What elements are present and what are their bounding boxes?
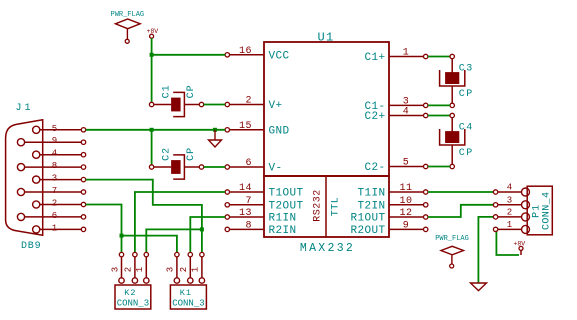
svg-text:TTL: TTL <box>331 197 342 217</box>
C3 plate (filled) <box>445 72 459 84</box>
K2 pin 3 end <box>119 252 123 256</box>
C2 right end <box>199 165 203 169</box>
wire C2 to U1 <box>204 166 225 168</box>
U1 pin 13 end <box>225 215 229 219</box>
P1 pin 1 end <box>493 227 497 231</box>
K2 pad pin 1 <box>144 278 149 283</box>
J1 pin 8 end <box>81 165 85 169</box>
svg-text:C2-: C2- <box>364 162 385 174</box>
P1 pad pin 4 <box>522 188 530 196</box>
wire U1 to C3 top <box>428 56 450 58</box>
J1 pad pin 1 <box>33 226 40 233</box>
wire junction down to C1 <box>151 55 153 103</box>
wire C4 bottom to U1 <box>428 166 450 168</box>
wire DB9 pin2 to junction B (net RX) <box>86 205 122 236</box>
power symbol +8V (top) <box>150 34 154 38</box>
J1 pad pin 2 <box>33 201 40 208</box>
svg-text:9: 9 <box>52 136 57 146</box>
U1 pin 10 end <box>424 203 428 207</box>
P1 pin 3 end <box>493 203 497 207</box>
U1 pin 10 T2IN stub <box>389 204 424 206</box>
svg-text:C4: C4 <box>459 123 474 134</box>
U1 pin 7 end <box>225 203 229 207</box>
svg-text:V-: V- <box>269 163 283 175</box>
svg-text:K2: K2 <box>124 288 136 298</box>
svg-text:4: 4 <box>52 149 57 159</box>
J1 pin 2 end <box>81 202 85 206</box>
svg-text:2: 2 <box>179 267 189 272</box>
svg-text:+8V: +8V <box>514 241 526 248</box>
svg-text:8: 8 <box>52 161 57 171</box>
svg-text:T2IN: T2IN <box>357 200 385 212</box>
J1 pin 6 end <box>81 215 85 219</box>
svg-text:8: 8 <box>245 220 252 231</box>
svg-text:J1: J1 <box>16 103 34 114</box>
C4 bottom end <box>450 164 454 168</box>
svg-text:R2OUT: R2OUT <box>350 225 385 237</box>
svg-text:4: 4 <box>403 107 410 118</box>
junction GND symbol branch <box>213 128 217 132</box>
U1 pin 2 V+ stub <box>230 104 265 106</box>
U1 pin 5 end <box>424 164 428 168</box>
J1 pin 9 lead <box>25 141 82 143</box>
svg-text:11: 11 <box>399 183 412 194</box>
U1 pin 9 R2OUT stub <box>389 228 424 230</box>
svg-text:+8V: +8V <box>147 28 159 35</box>
svg-text:2: 2 <box>52 199 57 209</box>
svg-text:C2: C2 <box>161 147 172 161</box>
svg-text:2: 2 <box>245 96 252 107</box>
K2 pin 3 lead <box>121 257 123 278</box>
junction +8V/VCC node <box>150 53 154 57</box>
P1 pad pin 2 <box>522 213 530 221</box>
svg-text:16: 16 <box>239 46 252 57</box>
K1 pad pin 2 <box>188 278 193 283</box>
svg-text:1: 1 <box>507 220 512 230</box>
svg-text:10: 10 <box>399 196 412 207</box>
svg-text:CP: CP <box>459 89 474 100</box>
wire junction down to C2 <box>151 130 153 165</box>
U1 pin 14 end <box>225 190 229 194</box>
P1 pin 1 lead <box>498 228 522 230</box>
svg-text:15: 15 <box>239 121 252 132</box>
U1 pin 7 T2OUT stub <box>230 204 265 206</box>
svg-text:MAX232: MAX232 <box>300 242 355 255</box>
svg-text:CONN_4: CONN_4 <box>542 192 553 230</box>
K2 pin 1 end <box>144 252 148 256</box>
K1 pad pin 1 <box>199 278 204 283</box>
svg-text:1: 1 <box>135 267 145 272</box>
J1 pad pin 6 <box>17 213 24 220</box>
J1 pin 3 end <box>81 177 85 181</box>
U1 pin 15 GND stub <box>230 129 265 131</box>
svg-text:VCC: VCC <box>269 50 290 62</box>
wire C3 bottom to U1 <box>428 104 450 106</box>
svg-text:2: 2 <box>507 207 512 217</box>
connector K1 body <box>170 285 206 309</box>
wire DB9 pin3 to junction A (net TX) <box>86 180 202 230</box>
K2 pad pin 3 <box>119 278 124 283</box>
svg-text:12: 12 <box>399 208 412 219</box>
J1 pin 3 lead <box>40 179 82 181</box>
K1 pin 2 end <box>188 252 192 256</box>
U1 pin 13 R1IN stub <box>230 216 265 218</box>
svg-text:CP: CP <box>459 148 474 159</box>
J1 pad pin 5 <box>33 126 40 133</box>
wire P1 pin2 to ground <box>478 217 493 283</box>
wire junction to U1 pin 16 VCC <box>152 54 226 56</box>
svg-text:RS232: RS232 <box>313 189 324 222</box>
C4 top lead <box>451 118 453 132</box>
J1 pin 5 lead <box>40 129 82 131</box>
U1 pin 6 V- stub <box>230 166 265 168</box>
svg-text:13: 13 <box>239 208 252 219</box>
P1 pad pin 1 <box>522 225 530 233</box>
K1 pin 1 end <box>200 252 204 256</box>
svg-text:7: 7 <box>245 196 252 207</box>
C3 bottom end <box>450 103 454 107</box>
capacitor C2 left end <box>149 165 153 169</box>
C3 bottom lead <box>451 86 453 103</box>
K2 pin 1 lead <box>145 257 147 278</box>
wire DB9 pin5 to U1 pin15 GND <box>86 129 225 131</box>
svg-text:T1IN: T1IN <box>357 188 385 200</box>
svg-text:3: 3 <box>52 174 57 184</box>
svg-text:R2IN: R2IN <box>269 225 297 237</box>
svg-text:4: 4 <box>507 183 512 193</box>
svg-text:9: 9 <box>403 220 410 231</box>
U1 pin 6 end <box>225 165 229 169</box>
svg-text:C1+: C1+ <box>364 52 385 64</box>
K1 pin 1 lead <box>201 257 203 278</box>
svg-text:C3: C3 <box>459 64 474 75</box>
J1 pad pin 9 <box>17 139 24 146</box>
C1 plate (filled) <box>171 98 181 112</box>
svg-text:3: 3 <box>166 267 176 272</box>
power flag PWR_FLAG (bottom) <box>441 246 464 264</box>
U1 pin 11 T1IN stub <box>389 191 424 193</box>
capacitor C4 top end <box>450 113 454 117</box>
J1 pad pin 4 <box>33 151 40 158</box>
wire junction B down to K2 pin3 <box>121 236 123 253</box>
svg-text:7: 7 <box>52 186 57 196</box>
svg-text:T1OUT: T1OUT <box>269 188 304 200</box>
J1 pin 2 lead <box>40 204 82 206</box>
U1 pin 12 end <box>424 215 428 219</box>
P1 pin 4 lead <box>498 191 522 193</box>
U1 pin 11 end <box>424 190 428 194</box>
connector J1 DB9 body <box>6 120 43 235</box>
K2 pin 2 end <box>133 252 137 256</box>
J1 pin 7 end <box>81 190 85 194</box>
svg-text:CP: CP <box>186 84 197 98</box>
C3 bracket plate <box>440 70 465 86</box>
U1 pin 12 R1OUT stub <box>389 216 424 218</box>
connector K2 body <box>115 285 151 309</box>
capacitor C3 top end <box>450 54 454 58</box>
C4 plate (filled) <box>445 131 459 143</box>
P1 pin 3 lead <box>498 204 522 206</box>
J1 pin 7 lead <box>25 191 82 193</box>
wire U1 pin12 R1OUT to P1 pin3 <box>428 205 494 217</box>
wire junction B to K1 pin3 <box>122 236 177 253</box>
U1 pin 3 C1- stub <box>389 104 424 106</box>
C4 bracket plate <box>440 129 465 145</box>
J1 pin 8 lead <box>25 166 82 168</box>
power flag PWR_FLAG (top) <box>115 19 140 39</box>
svg-text:PWR_FLAG: PWR_FLAG <box>111 11 145 19</box>
svg-text:3: 3 <box>507 195 512 205</box>
U1 pin 14 T1OUT stub <box>230 191 265 193</box>
C1 right lead <box>184 104 199 106</box>
U1 pin 15 end <box>225 128 229 132</box>
svg-text:PWR_FLAG: PWR_FLAG <box>435 235 469 243</box>
svg-text:6: 6 <box>245 158 252 169</box>
wire junction A down to K1 pin1 <box>201 229 203 252</box>
power symbol +8V (bottom) <box>519 246 523 250</box>
svg-text:5: 5 <box>403 158 410 169</box>
J1 pin 1 lead <box>40 228 82 230</box>
svg-text:CONN_3: CONN_3 <box>172 299 204 309</box>
junction GND/C2 branch <box>150 128 154 132</box>
U1 pin 1 C1+ stub <box>389 56 424 58</box>
K1 pin 3 lead <box>176 257 178 278</box>
C2 plate (filled) <box>171 160 181 174</box>
svg-text:GND: GND <box>269 125 290 137</box>
op-amp U1 MAX232 top body <box>264 42 389 176</box>
U1 bottom body <box>264 176 389 237</box>
C2 left lead <box>154 166 171 168</box>
K2 pad pin 2 <box>132 278 137 283</box>
C1 bracket plate <box>173 92 184 116</box>
U1 pin 4 C2+ stub <box>389 115 424 117</box>
svg-text:6: 6 <box>52 211 57 221</box>
J1 pin 1 end <box>81 227 85 231</box>
wire P1 pin1 to +8V <box>496 231 519 255</box>
C1 left lead <box>154 104 171 106</box>
svg-text:5: 5 <box>52 124 57 134</box>
P1 pin 2 lead <box>498 216 522 218</box>
U1 pin 1 end <box>424 54 428 58</box>
svg-text:U1: U1 <box>317 31 334 45</box>
capacitor C1 left end <box>149 102 153 106</box>
wire C1 to U1 <box>204 104 225 106</box>
svg-text:14: 14 <box>239 183 252 194</box>
U1 pin 5 C2- stub <box>389 166 424 168</box>
J1 pin 5 end <box>81 128 85 132</box>
J1 pin 4 end <box>81 153 85 157</box>
K2 pin 2 lead <box>134 257 136 278</box>
U1 pin 4 end <box>424 113 428 117</box>
U1 bottom divider <box>325 176 327 237</box>
C2 bracket plate <box>173 155 184 179</box>
P1 pin 4 end <box>493 190 497 194</box>
junction A (net TX / K1 pin1) <box>200 227 204 231</box>
C3 top lead <box>451 59 453 73</box>
svg-text:1: 1 <box>52 223 57 233</box>
U1 pin 3 end <box>424 103 428 107</box>
U1 pin 16 VCC stub <box>230 54 265 56</box>
wire U1 pin11 T1IN to P1 pin4 <box>428 191 494 193</box>
ground symbol (center) <box>209 130 222 147</box>
J1 pin 6 lead <box>25 216 82 218</box>
K1 pin 3 end <box>175 252 179 256</box>
U1 pin 2 end <box>225 102 229 106</box>
wire U1 pin13 R1IN to K1 pin2 <box>190 217 225 253</box>
K1 pad pin 3 <box>174 278 179 283</box>
svg-text:CP: CP <box>186 147 197 161</box>
svg-text:DB9: DB9 <box>21 241 41 252</box>
J1 pad pin 3 <box>33 176 40 183</box>
connector P1 body <box>527 186 552 235</box>
P1 pin 2 end <box>493 215 497 219</box>
svg-text:3: 3 <box>110 267 120 272</box>
C2 right lead <box>184 166 199 168</box>
svg-text:1: 1 <box>403 48 410 59</box>
svg-text:C2+: C2+ <box>364 111 385 123</box>
svg-text:K1: K1 <box>180 288 192 298</box>
wire +8V to junction <box>151 38 153 55</box>
svg-text:CONN_3: CONN_3 <box>117 299 149 309</box>
svg-text:V+: V+ <box>269 100 283 112</box>
junction B (net RX / K2 pin3) <box>120 234 124 238</box>
J1 pin 9 end <box>81 140 85 144</box>
wire U1 to C4 top <box>428 115 450 117</box>
J1 pin 4 lead <box>40 154 82 156</box>
svg-text:1: 1 <box>191 267 201 272</box>
K1 pin 2 lead <box>189 257 191 278</box>
wire K2 pin1 to junction A <box>146 229 202 252</box>
J1 pad pin 8 <box>17 164 24 171</box>
C4 bottom lead <box>451 145 453 164</box>
U1 pin 16 end <box>225 53 229 57</box>
svg-text:2: 2 <box>124 267 134 272</box>
U1 pin 9 end <box>424 227 428 231</box>
ground symbol (bottom right) <box>471 283 487 291</box>
svg-text:R1IN: R1IN <box>269 213 297 225</box>
U1 pin 8 R2IN stub <box>230 228 265 230</box>
C1 right end <box>199 102 203 106</box>
U1 pin 8 end <box>225 227 229 231</box>
P1 pad pin 3 <box>522 201 530 209</box>
wire U1 pin14 T1OUT to K2 pin2 <box>135 192 225 253</box>
svg-text:T2OUT: T2OUT <box>269 200 304 212</box>
svg-text:C1: C1 <box>161 84 172 98</box>
J1 pad pin 7 <box>17 188 24 195</box>
svg-text:R1OUT: R1OUT <box>350 213 385 225</box>
